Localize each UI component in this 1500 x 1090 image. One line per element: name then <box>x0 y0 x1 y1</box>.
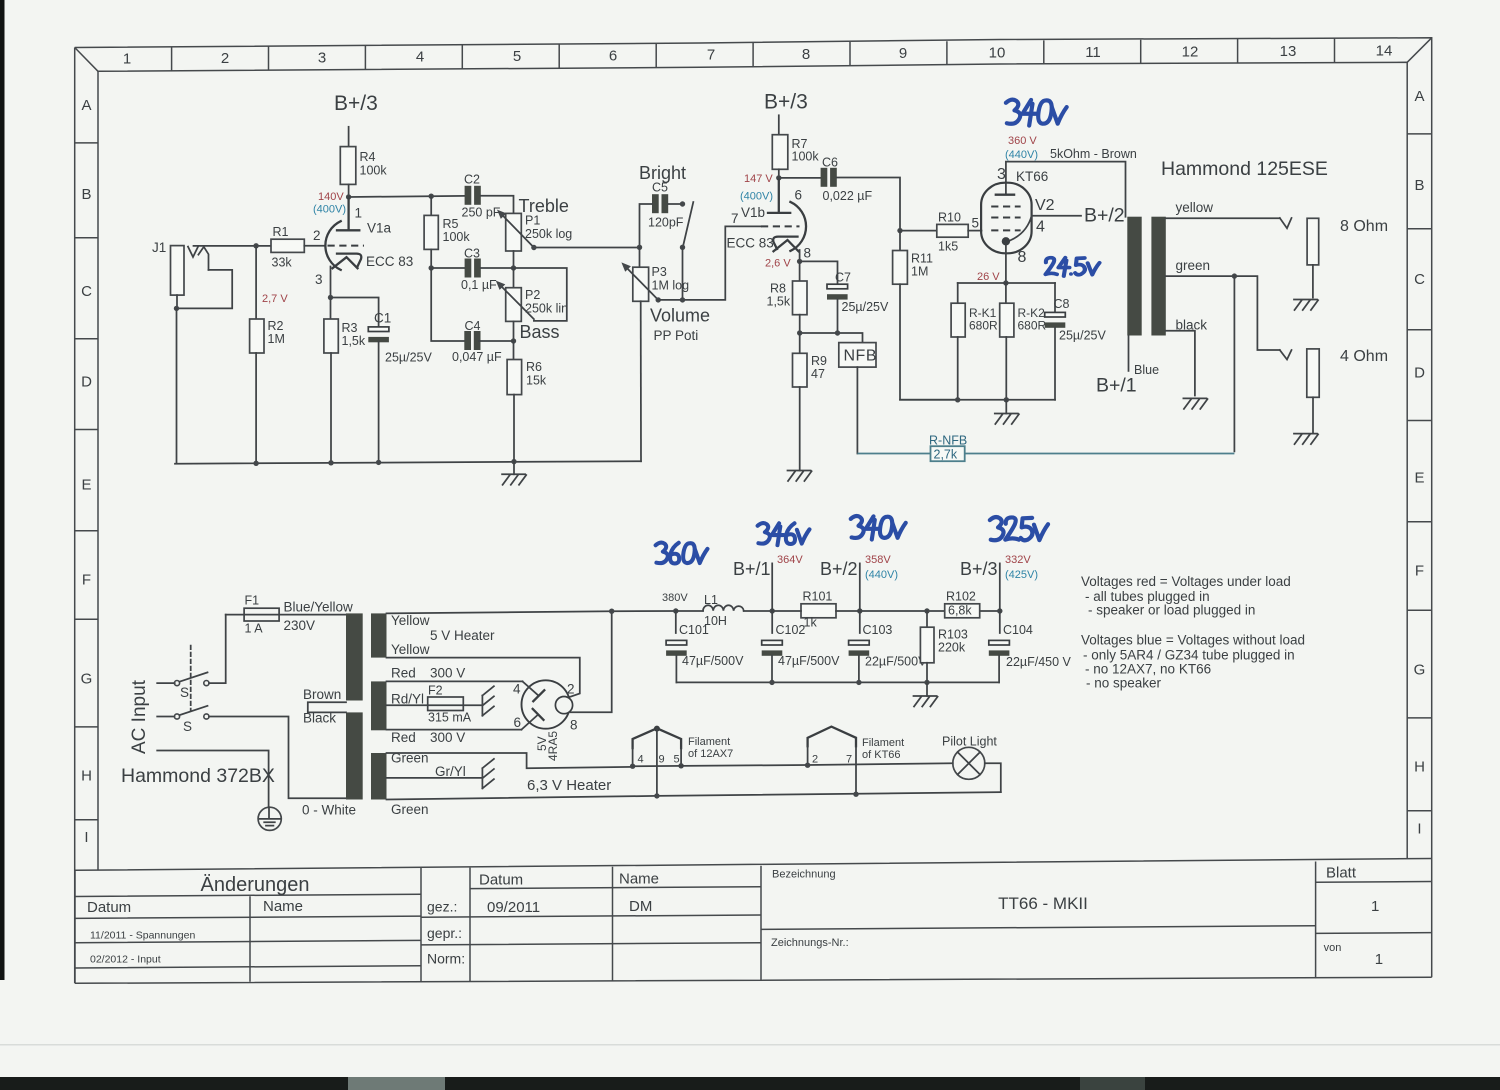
svg-text:1: 1 <box>123 51 131 68</box>
svg-text:Blatt: Blatt <box>1326 865 1357 882</box>
capacitor C6 <box>821 168 837 187</box>
frame corner diagonal top-left <box>75 48 98 72</box>
junction R10/R11 <box>897 228 902 233</box>
svg-text:10: 10 <box>989 44 1006 61</box>
svg-text:A: A <box>81 97 91 114</box>
svg-text:33k: 33k <box>272 256 293 270</box>
protective earth symbol <box>258 807 281 830</box>
junction C102 bottom <box>769 680 774 685</box>
svg-text:100k: 100k <box>443 230 471 244</box>
svg-text:P2: P2 <box>525 288 540 302</box>
svg-text:Pilot Light: Pilot Light <box>942 735 997 749</box>
svg-text:C4: C4 <box>465 319 481 333</box>
transformer secondary 6.3V winding bar <box>371 753 387 800</box>
chassis ground F2 <box>482 686 494 716</box>
speaker load 8 Ohm <box>1307 218 1319 265</box>
wire C3 to P2 node <box>481 267 514 269</box>
svg-text:C: C <box>1414 271 1425 288</box>
svg-text:AC Input: AC Input <box>129 679 150 754</box>
svg-text:R102: R102 <box>946 590 976 604</box>
wire HT bottom to pin 6 <box>387 729 522 731</box>
cathode rail KT66 <box>958 282 1055 284</box>
svg-text:Treble: Treble <box>519 196 569 216</box>
svg-text:2,7k: 2,7k <box>934 448 958 462</box>
svg-text:P3: P3 <box>652 265 667 279</box>
svg-text:6: 6 <box>514 715 522 730</box>
svg-text:380V: 380V <box>662 592 688 604</box>
wire R7 to 147V node <box>778 169 780 178</box>
scanner black bottom bar <box>0 1077 1500 1090</box>
svg-text:C: C <box>81 283 92 300</box>
svg-text:B+/3: B+/3 <box>764 91 808 114</box>
wire jack tip to R1 <box>194 245 272 247</box>
svg-text:B: B <box>81 186 91 203</box>
svg-text:2: 2 <box>313 228 321 243</box>
svg-text:1,5k: 1,5k <box>767 295 791 309</box>
svg-text:8: 8 <box>804 246 812 261</box>
svg-text:Yellow: Yellow <box>391 613 430 628</box>
svg-text:680R: 680R <box>1018 319 1047 333</box>
svg-text:6,8k: 6,8k <box>948 604 972 618</box>
svg-text:26 V: 26 V <box>977 271 1000 283</box>
jack tip contact <box>188 247 209 270</box>
svg-text:ECC 83: ECC 83 <box>366 254 413 269</box>
svg-text:D: D <box>1414 365 1425 382</box>
svg-text:0 - White: 0 - White <box>302 803 356 818</box>
svg-text:47: 47 <box>811 367 825 381</box>
handwritten 325v <box>990 517 1048 540</box>
wire B+/3 up <box>999 563 1001 611</box>
top band column numbers 1-14 <box>123 42 1393 67</box>
svg-text:(400V): (400V) <box>740 191 773 203</box>
wire HT top to pin 4 <box>387 680 523 682</box>
transformer secondary HT winding bar <box>371 681 387 730</box>
node 140V <box>346 194 351 199</box>
svg-text:A: A <box>1414 88 1424 105</box>
svg-text:100k: 100k <box>360 164 388 178</box>
svg-text:B+/1: B+/1 <box>1096 375 1137 397</box>
svg-text:gez.:: gez.: <box>427 899 457 915</box>
svg-text:Blue/Yellow: Blue/Yellow <box>284 600 354 615</box>
junction R8 bottom <box>797 330 802 335</box>
wire C2 to P1 top <box>481 196 514 214</box>
cathode bottom rail <box>900 399 1055 401</box>
svg-text:V1b: V1b <box>741 205 765 220</box>
junction 12AX7 pin9 <box>654 793 659 798</box>
junction R103 bottom <box>924 680 929 685</box>
svg-text:Volume: Volume <box>650 306 710 326</box>
svg-text:25µ/25V: 25µ/25V <box>385 351 432 365</box>
svg-text:R101: R101 <box>803 590 833 604</box>
svg-text:2: 2 <box>221 50 229 67</box>
ground black tap <box>1183 398 1207 409</box>
resistor R4 <box>340 147 356 185</box>
svg-text:14: 14 <box>1376 42 1393 59</box>
title block bezeichnung divider <box>761 926 1316 930</box>
svg-text:yellow: yellow <box>1176 200 1214 215</box>
svg-text:Name: Name <box>263 898 303 915</box>
svg-text:B+/3: B+/3 <box>334 92 378 115</box>
wire GrYl to chassis <box>387 777 483 779</box>
junction KT66 pin2 <box>805 763 810 768</box>
svg-text:Rd/Yl: Rd/Yl <box>391 692 424 707</box>
left band row letters A-I <box>81 97 93 846</box>
svg-text:360 V: 360 V <box>1008 135 1037 147</box>
svg-text:02/2012 - Input: 02/2012 - Input <box>90 954 161 966</box>
svg-text:Green: Green <box>391 802 429 817</box>
svg-text:1k5: 1k5 <box>938 240 958 254</box>
left band row ticks <box>75 143 98 820</box>
wire C5 to switch <box>668 203 682 205</box>
ground KT66 cathode <box>995 400 1019 424</box>
capacitor C2 <box>465 186 481 205</box>
title block outline <box>75 859 1432 984</box>
svg-text:B+/2: B+/2 <box>820 559 858 579</box>
node KT66 cathode <box>1003 280 1008 285</box>
junction C101 top <box>673 608 678 613</box>
svg-text:L1: L1 <box>704 593 718 607</box>
faint scan line above bottom bar <box>0 1044 1500 1046</box>
svg-text:1M: 1M <box>268 332 285 346</box>
svg-text:364V: 364V <box>777 554 803 566</box>
resistor R3 <box>324 298 338 463</box>
junction R5 bottom <box>429 265 434 270</box>
bright switch blade <box>683 202 693 246</box>
node cathode V1a <box>328 295 333 300</box>
svg-text:5: 5 <box>674 754 680 766</box>
connector V 4ohm <box>1280 350 1292 360</box>
svg-text:Bass: Bass <box>520 322 560 342</box>
tetrode V2 KT66 <box>981 183 1032 283</box>
wire cathode V1b to C7 <box>800 261 838 284</box>
svg-text:8 Ohm: 8 Ohm <box>1340 218 1388 235</box>
wire green tap <box>1166 276 1280 350</box>
wire volume out to V1b grid <box>658 226 761 300</box>
svg-text:E: E <box>81 477 91 494</box>
svg-text:C2: C2 <box>464 173 480 187</box>
svg-text:220k: 220k <box>938 641 966 655</box>
svg-text:I: I <box>1417 821 1421 838</box>
svg-text:315 mA: 315 mA <box>428 711 472 725</box>
svg-text:R103: R103 <box>938 628 968 642</box>
P1 bottom lead <box>513 251 515 268</box>
wire NFB to R-NFB <box>856 367 858 453</box>
svg-text:25µ/25V: 25µ/25V <box>1059 329 1106 343</box>
svg-text:gepr.:: gepr.: <box>427 925 462 941</box>
svg-text:100k: 100k <box>792 150 820 164</box>
P2 bottom lead <box>513 321 515 341</box>
svg-text:4: 4 <box>638 754 644 766</box>
fuse F2 <box>387 697 483 711</box>
resistor R101 <box>801 604 836 618</box>
svg-text:PP Poti: PP Poti <box>654 328 699 343</box>
svg-text:09/2011: 09/2011 <box>487 899 540 916</box>
svg-text:(400V): (400V) <box>313 204 346 216</box>
switch S lower <box>157 706 346 799</box>
junction 12AX7 pin5 <box>678 763 683 768</box>
junction green tap <box>1232 273 1237 278</box>
svg-text:5 V Heater: 5 V Heater <box>430 628 495 643</box>
switch link dashed <box>190 646 192 710</box>
wire KT66 plate to OT primary <box>1006 162 1126 217</box>
svg-text:2: 2 <box>812 754 818 766</box>
junction B+/3 <box>997 608 1002 613</box>
svg-text:4: 4 <box>416 49 424 66</box>
junction R6 bottom <box>511 459 516 464</box>
svg-text:Yellow: Yellow <box>391 642 430 657</box>
svg-text:6: 6 <box>609 47 617 64</box>
voltages blue note <box>1081 633 1305 691</box>
svg-text:680R: 680R <box>969 319 998 333</box>
capacitor C8 <box>1045 283 1066 400</box>
svg-text:F2: F2 <box>428 684 443 698</box>
node cathode V1b <box>797 259 802 264</box>
wire yellow tap <box>1166 217 1280 219</box>
svg-text:B: B <box>1414 177 1424 194</box>
svg-text:- no 12AX7, no KT66: - no 12AX7, no KT66 <box>1085 662 1211 677</box>
capacitor C1 <box>368 327 389 342</box>
svg-text:250k lin: 250k lin <box>525 302 568 316</box>
svg-text:Datum: Datum <box>479 872 523 889</box>
wire B+/3 to R7 <box>778 115 780 134</box>
svg-text:R10: R10 <box>938 211 961 225</box>
svg-text:H: H <box>1414 759 1425 776</box>
svg-text:3: 3 <box>315 272 323 287</box>
svg-text:C5: C5 <box>652 181 668 195</box>
svg-text:2,7 V: 2,7 V <box>262 293 288 305</box>
junction rectifier output <box>609 609 614 614</box>
fuse F1 <box>226 608 346 621</box>
node 147V <box>776 175 781 180</box>
svg-text:1: 1 <box>1375 951 1383 968</box>
ground R9 <box>788 471 812 482</box>
wire R4 to 140V node <box>348 184 350 197</box>
svg-text:Voltages blue = Voltages witho: Voltages blue = Voltages without load <box>1081 633 1305 648</box>
svg-text:250k log: 250k log <box>525 227 572 241</box>
svg-text:5: 5 <box>972 216 980 231</box>
wire C4 to R6 node <box>479 340 513 342</box>
svg-text:5: 5 <box>513 48 521 65</box>
junction jack sleeve <box>174 306 179 311</box>
junction KT66 pin7 heater <box>853 792 858 797</box>
top band column ticks <box>172 38 1335 70</box>
svg-text:von: von <box>1324 942 1342 954</box>
svg-text:Zeichnungs-Nr.:: Zeichnungs-Nr.: <box>771 937 849 949</box>
wire P2 case loop <box>514 268 567 321</box>
capacitor C3 <box>465 259 481 278</box>
svg-text:2,6 V: 2,6 V <box>765 258 791 270</box>
svg-text:7: 7 <box>731 211 739 226</box>
handwritten 340v (psu) <box>851 516 906 540</box>
svg-text:- only 5AR4 / GZ34 tube plugge: - only 5AR4 / GZ34 tube plugged in <box>1083 648 1295 663</box>
capacitor C101 <box>666 611 687 682</box>
C1 lead lower <box>378 342 380 463</box>
earth wire <box>157 751 268 808</box>
svg-text:C7: C7 <box>835 271 851 285</box>
junction P1 wiper <box>531 245 536 250</box>
junction B+/2 <box>857 608 862 613</box>
svg-text:5V: 5V <box>535 736 549 751</box>
feedback wire R-NFB <box>857 453 1234 455</box>
wire R1 to V1a grid <box>304 245 325 247</box>
wire P1 wiper to bright node <box>534 247 640 249</box>
svg-text:C103: C103 <box>863 623 893 637</box>
svg-text:C1: C1 <box>374 311 391 326</box>
resistor R6 <box>507 341 521 462</box>
svg-text:1: 1 <box>355 206 363 221</box>
svg-text:R6: R6 <box>526 360 542 374</box>
svg-text:R9: R9 <box>811 354 827 368</box>
svg-text:Filament: Filament <box>688 736 730 748</box>
svg-text:3: 3 <box>318 49 326 66</box>
svg-text:ECC 83: ECC 83 <box>727 236 774 251</box>
svg-text:R4: R4 <box>360 150 376 164</box>
svg-text:C8: C8 <box>1054 297 1070 311</box>
resistor R102 <box>945 604 980 618</box>
ground 4 ohm <box>1294 397 1318 444</box>
resistor R8 <box>793 261 808 333</box>
svg-text:22µF/500V: 22µF/500V <box>865 655 927 669</box>
svg-text:- speaker or load plugged in: - speaker or load plugged in <box>1088 603 1255 618</box>
svg-text:25µ/25V: 25µ/25V <box>842 300 889 314</box>
svg-text:G: G <box>1414 662 1426 679</box>
svg-text:Änderungen: Änderungen <box>201 874 310 896</box>
junction C103 bottom <box>856 680 861 685</box>
resistor R7 <box>772 135 788 170</box>
rectifier V5 5AR4 <box>521 611 611 729</box>
svg-text:120pF: 120pF <box>648 216 684 230</box>
svg-text:V2: V2 <box>1035 197 1055 214</box>
output transformer primary bar <box>1127 217 1141 336</box>
capacitor C104 <box>989 611 1010 682</box>
svg-text:147 V: 147 V <box>744 173 773 185</box>
svg-text:C104: C104 <box>1003 623 1033 637</box>
output transformer secondary bar <box>1151 217 1165 336</box>
svg-text:1: 1 <box>1371 898 1379 915</box>
potentiometer P3 <box>621 247 658 301</box>
junction volume switch <box>680 297 685 302</box>
upper heater rail continuation <box>633 763 953 766</box>
C7 bottom lead <box>837 300 839 333</box>
handwritten 340v (top) <box>1006 100 1067 126</box>
svg-text:13: 13 <box>1280 43 1297 60</box>
wire OT primary bottom to B+/1 <box>1128 336 1130 371</box>
wire B+/1 up <box>771 563 773 611</box>
connector V 8ohm <box>1280 218 1292 228</box>
svg-text:15k: 15k <box>526 374 547 388</box>
pilot light lamp <box>953 747 1001 792</box>
junction R3 bottom <box>328 460 333 465</box>
svg-text:S: S <box>180 685 189 700</box>
svg-text:4: 4 <box>1036 219 1045 236</box>
PSU bottom rail <box>676 681 999 683</box>
title block gez/gepr/norm rows <box>421 887 761 945</box>
choke L1 <box>676 605 772 611</box>
title block blatt dividers <box>1316 882 1432 934</box>
junction C1 bottom <box>376 460 381 465</box>
junction C7 bottom <box>835 330 840 335</box>
junction switch bottom <box>680 245 685 250</box>
svg-text:Voltages red = Voltages under: Voltages red = Voltages under load <box>1081 574 1291 589</box>
svg-text:10H: 10H <box>704 614 727 628</box>
resistor R103 <box>920 611 934 682</box>
resistor R10 <box>900 224 982 237</box>
capacitor C4 <box>464 331 480 350</box>
svg-text:F: F <box>1415 563 1424 580</box>
resistor R5 <box>424 196 438 268</box>
transformer primary winding bar lower <box>346 712 363 799</box>
switch S upper <box>157 615 226 686</box>
svg-text:F: F <box>82 572 91 589</box>
svg-text:300 V: 300 V <box>430 666 465 681</box>
svg-text:Brown: Brown <box>303 687 341 702</box>
wire KT66 screen to B+/2 <box>1032 215 1081 217</box>
junction R2 bottom <box>253 461 258 466</box>
svg-text:1 A: 1 A <box>245 622 264 636</box>
svg-text:4 Ohm: 4 Ohm <box>1340 348 1388 365</box>
svg-text:R11: R11 <box>911 252 933 266</box>
svg-text:Red: Red <box>391 730 416 745</box>
wire switch bottom to volume out <box>682 247 684 300</box>
handwritten 346v <box>758 523 810 545</box>
NFB block <box>839 343 876 368</box>
svg-text:C102: C102 <box>776 623 806 637</box>
svg-text:0,1 µF: 0,1 µF <box>461 278 497 292</box>
capacitor C102 <box>762 611 783 682</box>
right band row letters A-I <box>1414 88 1426 838</box>
svg-text:S: S <box>183 719 192 734</box>
junction 12AX7 pin4 <box>630 764 635 769</box>
wire cathode to C1 <box>331 298 379 328</box>
triode V1a <box>325 197 364 298</box>
svg-text:J1: J1 <box>152 240 166 255</box>
svg-text:8: 8 <box>1018 249 1027 266</box>
svg-text:1M: 1M <box>911 265 928 279</box>
main B+ rail <box>772 610 1000 612</box>
P3 bottom lead <box>640 301 642 461</box>
lower heater rail <box>387 792 1001 799</box>
capacitor C5 <box>652 194 668 213</box>
svg-text:Red: Red <box>391 666 416 681</box>
title block vertical dividers <box>250 862 1316 983</box>
junction C3 right <box>511 265 516 270</box>
svg-text:of 12AX7: of 12AX7 <box>688 748 733 760</box>
resistor R-K2 <box>1000 283 1014 400</box>
svg-text:C3: C3 <box>464 247 480 261</box>
svg-text:B+/1: B+/1 <box>733 559 771 579</box>
capacitor C103 <box>849 611 870 682</box>
speaker load 4 Ohm <box>1307 349 1319 397</box>
title block horizontal dividers left section <box>75 894 421 968</box>
svg-text:R2: R2 <box>268 319 284 333</box>
frame corner diagonal top-right <box>1407 38 1432 63</box>
svg-text:300 V: 300 V <box>430 730 465 745</box>
junction switch top <box>680 201 685 206</box>
wire C3 junction down to C4 <box>431 268 465 341</box>
svg-text:9: 9 <box>899 45 907 62</box>
transformer primary winding bar upper <box>346 613 363 700</box>
svg-text:47µF/500V: 47µF/500V <box>682 654 744 668</box>
svg-text:F1: F1 <box>245 594 260 608</box>
svg-text:R5: R5 <box>443 217 459 231</box>
svg-text:0,047 µF: 0,047 µF <box>452 350 502 364</box>
input jack J1 <box>171 246 185 309</box>
junction R2 top <box>253 243 258 248</box>
svg-text:Hammond 372BX: Hammond 372BX <box>121 765 275 787</box>
wire B+/2 up <box>859 563 861 611</box>
svg-text:B+/2: B+/2 <box>1084 205 1125 227</box>
svg-text:- no speaker: - no speaker <box>1086 676 1162 691</box>
